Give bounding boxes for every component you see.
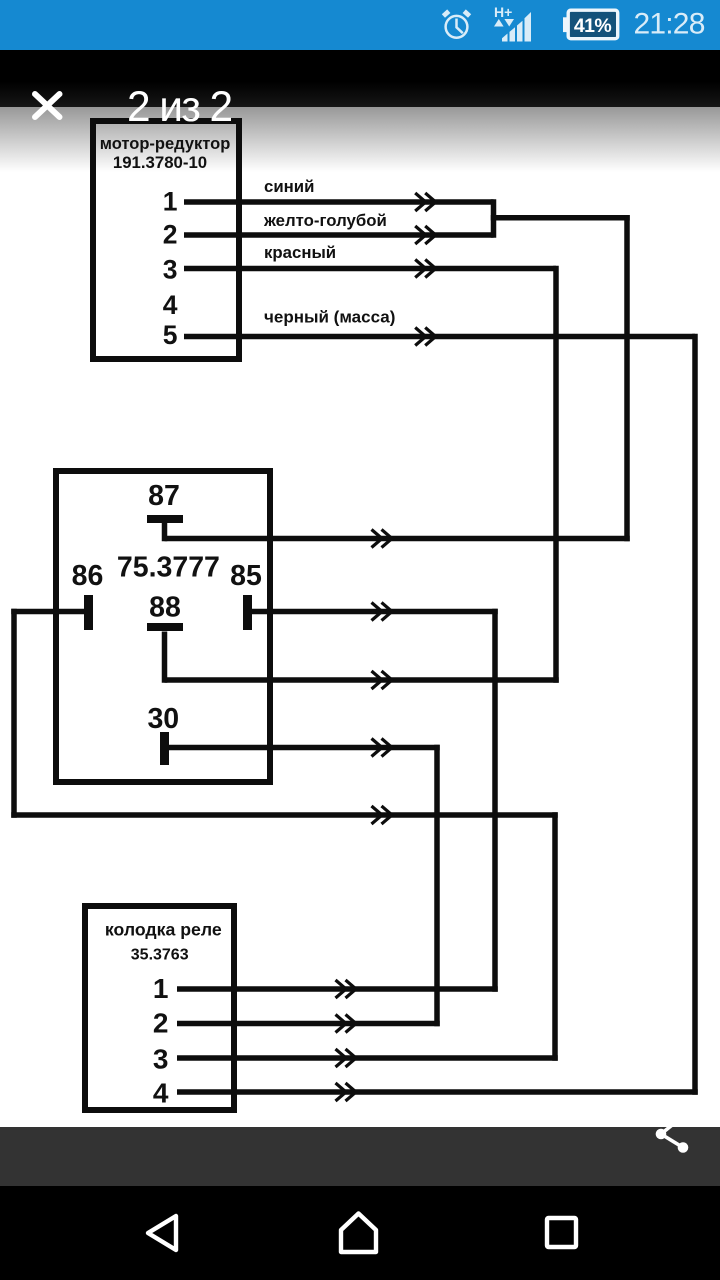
relay contact bar: pin 30 xyxy=(160,732,169,765)
svg-text:H+: H+ xyxy=(494,4,512,20)
svg-text:4: 4 xyxy=(163,290,178,320)
svg-text:21:28: 21:28 xyxy=(634,8,705,41)
wire: vertical drop красный to relay 88 xyxy=(553,266,559,683)
svg-text:желто-голубой: желто-голубой xyxy=(263,211,387,230)
svg-text:87: 87 xyxy=(148,480,180,512)
connector chevrons: relay 88 wire xyxy=(372,671,383,689)
connector chevrons: socket pin 1 wire xyxy=(336,980,347,998)
svg-text:красный: красный xyxy=(264,243,336,262)
wire: relay pin 30 horizontal xyxy=(168,745,440,751)
wire: relay pin 88 horizontal xyxy=(165,677,559,683)
connector chevrons: socket pin 4 wire xyxy=(336,1083,347,1101)
svg-text:30: 30 xyxy=(147,703,179,735)
wire: long horizontal under relay xyxy=(11,812,558,818)
svg-text:75.3777: 75.3777 xyxy=(117,552,220,584)
page counter "2 из 2" xyxy=(127,84,427,132)
wire: socket pin 2 horizontal xyxy=(177,1021,440,1027)
photo-viewer top gradient overlay xyxy=(0,50,720,107)
relay contact bar: pin 87 xyxy=(147,515,183,523)
wire: left vertical from 86 xyxy=(11,609,17,818)
wire: socket pin 4 horizontal xyxy=(177,1089,698,1095)
svg-text:2: 2 xyxy=(163,220,178,250)
connector box: мотор-редуктор 191.3780-10 xyxy=(93,121,239,359)
wire: motor pin 5 (черный масса) xyxy=(184,334,695,340)
close (X) button xyxy=(27,87,67,127)
wire: motor pin 2 (желто-голубой) xyxy=(184,232,494,238)
svg-text:41%: 41% xyxy=(574,15,611,37)
junction: pins 1+2 bracket xyxy=(491,199,497,238)
relay contact bar: pin 88 xyxy=(147,623,183,631)
recents square xyxy=(547,1218,576,1247)
svg-text:1: 1 xyxy=(153,973,169,1004)
svg-text:191.3780-10: 191.3780-10 xyxy=(113,153,207,172)
wire: vertical drop to relay 87 xyxy=(624,215,630,541)
share icon xyxy=(648,1115,698,1165)
svg-text:35.3763: 35.3763 xyxy=(131,947,189,964)
connector chevrons: relay 86 long wire xyxy=(372,806,383,824)
svg-text:4: 4 xyxy=(153,1078,169,1109)
svg-text:86: 86 xyxy=(72,560,104,592)
wire: socket pin 3 horizontal xyxy=(177,1055,558,1061)
bottom share toolbar xyxy=(0,1127,720,1186)
connector chevrons: wire желто-голубой xyxy=(415,226,426,244)
wire: right edge vertical to socket pin 4 xyxy=(692,334,698,1095)
svg-text:88: 88 xyxy=(149,592,181,624)
svg-text:85: 85 xyxy=(230,560,262,592)
wire: vertical drop 30 to socket pin 2 xyxy=(434,745,440,1027)
wire: vertical drop 85 to socket pin 1 xyxy=(492,609,498,992)
svg-text:колодка реле: колодка реле xyxy=(105,920,222,940)
wire: relay pin 86 to left xyxy=(11,609,84,615)
connector chevrons: wire красный xyxy=(415,260,426,278)
connector chevrons: wire синий xyxy=(415,193,426,211)
connector chevrons: socket pin 3 wire xyxy=(336,1049,347,1067)
wire: socket pin 1 horizontal xyxy=(177,986,498,992)
android navigation bar xyxy=(0,1186,720,1280)
signal bars xyxy=(502,12,531,42)
svg-text:мотор-редуктор: мотор-редуктор xyxy=(100,135,231,153)
connector chevrons: relay 30 wire xyxy=(372,739,383,757)
status bar xyxy=(0,0,720,50)
svg-text:5: 5 xyxy=(163,320,178,350)
svg-text:3: 3 xyxy=(153,1044,169,1075)
relay socket box колодка реле 35.3763 xyxy=(85,906,234,1110)
battery icon xyxy=(568,10,618,39)
wire: vertical drop to socket pin 3 xyxy=(552,812,558,1061)
status bar icons xyxy=(0,0,720,51)
wire: relay pin 88 stem xyxy=(162,632,168,683)
connector chevrons: relay 87 wire xyxy=(372,530,383,548)
relay contact bar: pin 86 xyxy=(84,595,93,630)
connector chevrons: wire черный масса xyxy=(415,328,426,346)
alarm clock icon xyxy=(446,16,468,38)
svg-text:синий: синий xyxy=(264,177,314,196)
wire: relay pin 87 stem xyxy=(162,523,168,541)
wire: bracket to right column xyxy=(491,215,630,221)
data arrows xyxy=(494,19,504,27)
home xyxy=(341,1214,376,1253)
connector chevrons: relay 85 wire xyxy=(372,603,383,621)
relay box 75.3777 xyxy=(56,471,270,782)
svg-text:1: 1 xyxy=(163,187,178,217)
connector chevrons: socket pin 2 wire xyxy=(336,1015,347,1033)
wire: motor pin 3 (красный) xyxy=(184,266,556,272)
svg-text:2: 2 xyxy=(153,1008,169,1039)
wire: relay pin 85 horizontal xyxy=(252,609,498,615)
svg-text:черный (масса): черный (масса) xyxy=(264,308,395,327)
relay contact bar: pin 85 xyxy=(243,595,252,630)
back triangle xyxy=(148,1216,176,1250)
wire: motor pin 1 (синий) xyxy=(184,199,494,205)
svg-text:3: 3 xyxy=(163,255,178,285)
wire: relay pin 87 horizontal xyxy=(165,536,630,542)
